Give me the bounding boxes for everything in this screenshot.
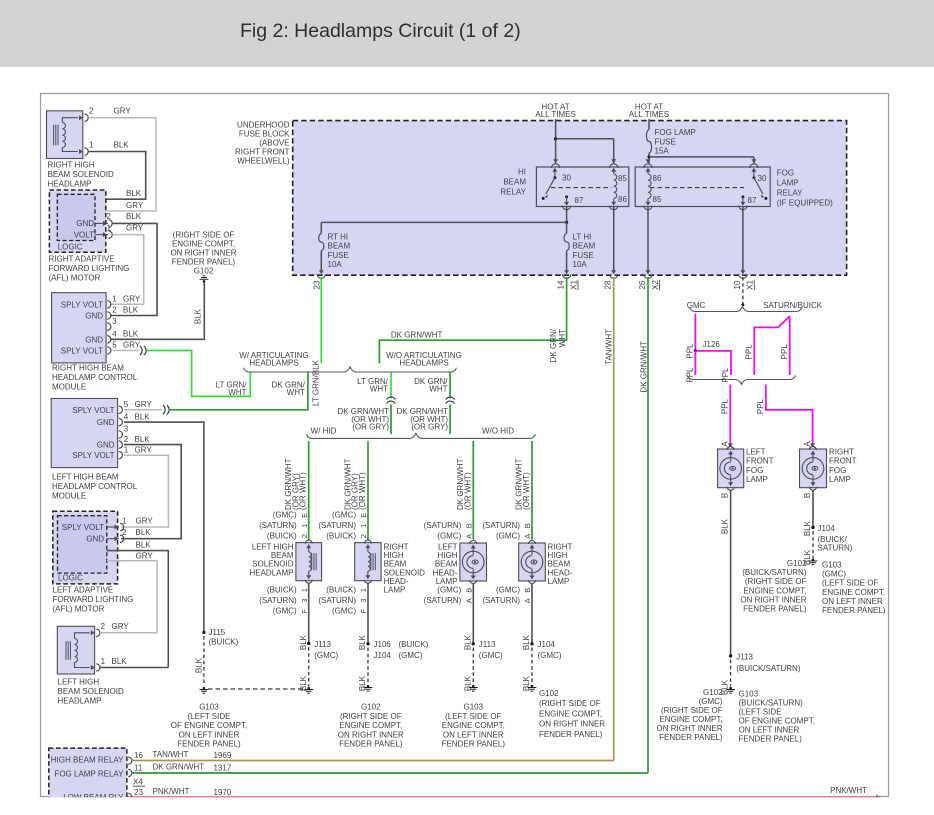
fog relay pin 87 exit [741, 195, 744, 198]
pin 2 GRY of right solenoid headlamp [79, 115, 83, 120]
svg-text:(GMC): (GMC) [496, 532, 520, 541]
component left AFL motor inner [58, 516, 107, 573]
svg-text:WHT: WHT [558, 329, 567, 347]
wire DK GRN/WHT below connector [390, 405, 392, 435]
svg-text:BLK: BLK [126, 212, 142, 221]
svg-text:WHT: WHT [287, 388, 305, 397]
svg-text:HEADLAMP: HEADLAMP [58, 697, 102, 706]
svg-text:23: 23 [313, 280, 322, 289]
svg-text:LAMP: LAMP [777, 179, 799, 188]
svg-text:ON LEFT INNER: ON LEFT INNER [822, 597, 883, 606]
svg-text:ALL TIMES: ALL TIMES [629, 110, 669, 119]
svg-text:DK GRN/WHT: DK GRN/WHT [391, 330, 443, 339]
svg-text:GRY: GRY [135, 400, 153, 409]
svg-text:(BUICK/SATURN): (BUICK/SATURN) [739, 699, 804, 708]
svg-text:HI: HI [518, 168, 526, 177]
svg-text:3: 3 [124, 425, 129, 434]
svg-text:G102: G102 [194, 267, 214, 276]
svg-text:LOGIC: LOGIC [58, 243, 83, 252]
svg-text:(SATURN): (SATURN) [318, 521, 356, 530]
svg-text:RIGHT: RIGHT [829, 448, 854, 457]
wire AFL GND to module pin 2 [110, 223, 157, 315]
svg-text:(RIGHT SIDE OF: (RIGHT SIDE OF [661, 706, 723, 715]
svg-text:2: 2 [107, 212, 112, 221]
svg-text:(SATURN): (SATURN) [424, 596, 462, 605]
svg-text:HEADLAMP: HEADLAMP [48, 180, 92, 189]
svg-text:26: 26 [638, 280, 647, 289]
svg-text:E: E [359, 513, 368, 518]
svg-text:FOG LAMP RELAY: FOG LAMP RELAY [54, 770, 124, 779]
svg-text:BLK: BLK [112, 657, 128, 666]
component left high beam headlamp control module [51, 399, 117, 468]
svg-text:GRY: GRY [112, 622, 130, 631]
wire junction left to RT fuse [321, 221, 566, 223]
svg-text:GND: GND [76, 219, 94, 228]
inline connector hid left [387, 397, 396, 399]
svg-text:FOG: FOG [777, 169, 794, 178]
wire GRY left pin1 to AFL [121, 455, 168, 527]
svg-text:X4: X4 [133, 778, 143, 787]
svg-text:A: A [523, 534, 532, 539]
fog relay pin 85 exit [647, 199, 649, 202]
svg-text:(SATURN): (SATURN) [482, 596, 520, 605]
svg-text:FENDER PANEL): FENDER PANEL) [539, 730, 603, 739]
svg-text:(GMC): (GMC) [273, 607, 297, 616]
svg-text:BEAM: BEAM [573, 242, 596, 251]
svg-text:(GMC): (GMC) [699, 697, 723, 706]
wire BLK module pin4 to G102 [110, 283, 204, 340]
fog relay pin 30 entry [751, 159, 756, 163]
svg-text:GND: GND [85, 312, 103, 321]
svg-text:2: 2 [101, 622, 106, 631]
svg-text:J104: J104 [374, 651, 392, 660]
title banner [0, 0, 934, 67]
wire DK GRN/WHT 26 down [647, 277, 649, 773]
svg-text:RIGHT HIGH: RIGHT HIGH [48, 161, 95, 170]
svg-text:86: 86 [618, 195, 627, 204]
svg-text:(GMC): (GMC) [538, 651, 562, 660]
svg-text:FENDER PANEL): FENDER PANEL) [177, 740, 241, 749]
wire DK GRN/WHT from 14 [379, 277, 566, 363]
svg-text:TAN/WHT: TAN/WHT [153, 750, 189, 759]
wire BLK pin1 to AFL motor [88, 152, 145, 200]
left AFL BLK row [107, 551, 169, 668]
svg-text:ENGINE COMPT,: ENGINE COMPT, [442, 721, 505, 730]
svg-text:BLK: BLK [194, 308, 203, 324]
svg-text:23: 23 [134, 788, 143, 797]
relay pin 86 exit [613, 199, 615, 202]
svg-text:(AFL) MOTOR: (AFL) MOTOR [49, 274, 101, 283]
svg-text:TAN/WHT: TAN/WHT [605, 329, 614, 365]
wire TAN/WHT 28 down [613, 277, 615, 761]
svg-text:BLK: BLK [358, 675, 367, 691]
svg-text:RIGHT ADAPTIVE: RIGHT ADAPTIVE [49, 255, 115, 264]
diagram frame [41, 94, 889, 797]
svg-text:GRY: GRY [136, 551, 154, 560]
svg-text:G102: G102 [361, 703, 381, 712]
fuse LT HI BEAM FUSE 10A [566, 222, 568, 233]
wire dashed left fog ground [730, 660, 732, 687]
svg-text:(BUICK): (BUICK) [326, 586, 356, 595]
svg-text:85: 85 [618, 174, 627, 183]
svg-text:RELAY: RELAY [500, 188, 526, 197]
svg-text:B: B [465, 588, 474, 593]
svg-text:1: 1 [101, 657, 106, 666]
svg-text:(BUICK/SATURN): (BUICK/SATURN) [736, 664, 801, 673]
svg-text:(GMC): (GMC) [822, 570, 846, 579]
svg-text:FENDER PANEL): FENDER PANEL) [339, 740, 403, 749]
fuse FOG LAMP FUSE 15A [646, 130, 651, 154]
wire dashed lamp2 ground [367, 648, 369, 685]
svg-text:BEAM: BEAM [328, 242, 351, 251]
module pin 2 BLK [107, 312, 111, 319]
fuse RT HI BEAM FUSE 10A [319, 234, 324, 251]
svg-text:BLK: BLK [136, 541, 152, 550]
svg-text:BLK: BLK [522, 675, 531, 691]
svg-text:(BUICK/: (BUICK/ [818, 535, 848, 544]
svg-text:1: 1 [107, 224, 112, 233]
svg-text:GND: GND [86, 535, 104, 544]
svg-text:RELAY: RELAY [777, 189, 803, 198]
ground G102 lamp4 symbol [531, 685, 534, 688]
svg-text:LEFT HIGH BEAM: LEFT HIGH BEAM [52, 473, 119, 482]
wire feed left solenoid lamp [308, 441, 310, 540]
svg-text:(OR GRY): (OR GRY) [352, 422, 389, 431]
svg-text:(SATURN): (SATURN) [482, 521, 520, 530]
svg-text:(GMC): (GMC) [273, 511, 297, 520]
svg-text:WHT: WHT [228, 388, 246, 397]
svg-text:W/O HID: W/O HID [482, 427, 514, 436]
svg-text:WHT: WHT [429, 385, 447, 394]
svg-text:VOLT: VOLT [74, 230, 94, 239]
svg-text:BEAM SOLENOID: BEAM SOLENOID [58, 687, 124, 696]
svg-text:LEFT ADAPTIVE: LEFT ADAPTIVE [53, 586, 114, 595]
svg-text:HEADLAMP: HEADLAMP [249, 568, 293, 577]
wire GRY pin2 to AFL motor [88, 118, 155, 211]
module pin 4 BLK [107, 336, 111, 343]
svg-text:ON RIGHT INNER: ON RIGHT INNER [338, 730, 404, 739]
component left high beam solenoid headlamp [57, 626, 94, 674]
svg-text:FUSE: FUSE [573, 251, 594, 260]
svg-text:(OR WHT): (OR WHT) [522, 472, 531, 510]
svg-text:PPL: PPL [756, 398, 765, 414]
svg-text:G103: G103 [464, 703, 484, 712]
wire LT GRN/WHT right module to brace [147, 351, 250, 397]
svg-text:G103: G103 [822, 561, 842, 570]
svg-text:LEFT: LEFT [746, 448, 766, 457]
svg-text:HEADLAMPS: HEADLAMPS [249, 359, 298, 368]
svg-text:W/ HID: W/ HID [311, 427, 337, 436]
svg-text:87: 87 [748, 196, 757, 205]
svg-text:DK GRN/: DK GRN/ [549, 328, 558, 362]
component right high beam headlamp [519, 543, 546, 581]
svg-text:85: 85 [653, 195, 662, 204]
svg-text:F: F [359, 608, 368, 613]
brace articulating options [243, 367, 456, 372]
svg-text:(GMC): (GMC) [437, 532, 461, 541]
relay pin 85 entry [611, 159, 616, 163]
wire BLK below lamp3 [472, 584, 474, 644]
svg-text:3: 3 [300, 599, 309, 603]
svg-text:30: 30 [562, 174, 571, 183]
wire fog relay 85 to block exit 26 [647, 207, 649, 272]
wire LT GRN/WHT right pair [390, 372, 392, 399]
svg-text:UNDERHOOD: UNDERHOOD [237, 120, 290, 129]
svg-text:GND: GND [85, 335, 103, 344]
svg-text:PPL: PPL [745, 344, 754, 360]
wire LT fuse to block exit 14 [566, 251, 568, 272]
wire BLK left lamp to AFL [100, 667, 168, 669]
svg-text:ON LEFT INNER: ON LEFT INNER [443, 730, 504, 739]
svg-text:BLK: BLK [463, 634, 472, 650]
svg-text:(LEFT SIDE OF: (LEFT SIDE OF [445, 712, 501, 721]
wire BLK below left fog [730, 490, 732, 656]
svg-text:(BUICK): (BUICK) [209, 638, 239, 647]
svg-text:BLK: BLK [463, 675, 472, 691]
ground G102 lamp2 symbol [367, 685, 370, 688]
wire BLK below lamp1 [308, 584, 310, 644]
wire feed right headlamp [531, 441, 533, 540]
svg-text:(BUICK): (BUICK) [326, 532, 356, 541]
ground G102 top symbol [203, 280, 206, 283]
svg-text:30: 30 [758, 174, 767, 183]
wire hot feed to fog lamp fuse [648, 119, 650, 130]
svg-text:5: 5 [112, 341, 117, 350]
wire RT fuse to block exit 23 [320, 251, 322, 272]
svg-text:BLK: BLK [126, 189, 142, 198]
svg-text:LAMP: LAMP [548, 577, 570, 586]
svg-text:GMC: GMC [687, 301, 706, 310]
svg-text:LT GRN/BLK: LT GRN/BLK [312, 359, 321, 406]
svg-text:PPL: PPL [686, 367, 695, 383]
relay coil 85-86 [613, 171, 615, 174]
svg-text:BLK: BLK [195, 657, 204, 673]
svg-text:(BUICK): (BUICK) [399, 640, 429, 649]
svg-text:PNK/WHT: PNK/WHT [153, 787, 190, 796]
wire AFL VOLT to module pin 1 [110, 235, 144, 305]
brace GMC / SATURN-BUICK [690, 307, 802, 312]
svg-text:G103: G103 [739, 690, 759, 699]
wire fog relay 87 to block exit 10 [742, 207, 744, 272]
pin 2 GRY of left solenoid headlamp [91, 630, 95, 635]
wire DK GRN/WHT below connector right [449, 405, 451, 435]
svg-text:SPLY VOLT: SPLY VOLT [72, 451, 114, 460]
relay switch arm [546, 178, 555, 195]
wire BLK below right fog [812, 490, 814, 528]
fog relay internal dashed link [650, 187, 744, 189]
svg-text:B: B [523, 523, 532, 528]
svg-text:(BUICK): (BUICK) [267, 532, 297, 541]
svg-text:FOG: FOG [829, 466, 846, 475]
svg-text:FRONT: FRONT [746, 457, 774, 466]
svg-text:(BUICK): (BUICK) [267, 586, 297, 595]
svg-text:J115: J115 [209, 628, 226, 637]
brace fog lamp merge [687, 375, 795, 384]
svg-text:87: 87 [575, 196, 584, 205]
svg-text:J104: J104 [818, 524, 836, 533]
svg-text:BLK: BLK [358, 634, 367, 650]
pin 1 BLK of left solenoid headlamp [91, 665, 95, 670]
svg-text:(SATURN): (SATURN) [318, 596, 356, 605]
svg-text:SPLY VOLT: SPLY VOLT [61, 300, 103, 309]
wire BLK below lamp4 [531, 584, 533, 644]
svg-text:FUSE BLOCK: FUSE BLOCK [239, 129, 290, 138]
svg-text:(GMC): (GMC) [437, 586, 461, 595]
splice J115 [202, 631, 205, 634]
wire feed right solenoid lamp [367, 441, 369, 540]
svg-text:X1: X1 [569, 280, 578, 290]
svg-text:PPL: PPL [721, 367, 730, 383]
relay pin 30 entry [553, 159, 558, 163]
svg-text:3: 3 [359, 599, 368, 603]
svg-text:X1: X1 [746, 280, 755, 290]
svg-text:B: B [803, 493, 812, 498]
svg-text:(OR WHT): (OR WHT) [463, 472, 472, 510]
wire PPL saturn diagonal [754, 316, 789, 375]
svg-text:LOGIC: LOGIC [58, 574, 83, 583]
svg-text:J106: J106 [374, 640, 392, 649]
svg-text:HEADLAMPS: HEADLAMPS [399, 359, 448, 368]
svg-text:14: 14 [557, 280, 566, 289]
svg-text:GND: GND [97, 441, 115, 450]
svg-text:(RIGHT SIDE OF: (RIGHT SIDE OF [539, 699, 601, 708]
svg-text:1970: 1970 [214, 788, 232, 797]
splice J113 left fog [729, 654, 732, 657]
svg-text:ENGINE COMPT,: ENGINE COMPT, [339, 721, 402, 730]
fog relay switch arm [754, 178, 763, 195]
svg-text:ENGINE COMPT,: ENGINE COMPT, [539, 709, 602, 718]
svg-text:FRONT: FRONT [829, 457, 857, 466]
wire branch to fog relay pin 30 [649, 156, 754, 158]
component left high beam headlamp [460, 543, 487, 581]
svg-text:10: 10 [733, 280, 742, 289]
svg-text:ALL TIMES: ALL TIMES [535, 110, 575, 119]
svg-text:BLK: BLK [299, 675, 308, 691]
fog relay coil 86-85 [647, 171, 649, 174]
svg-text:G102: G102 [787, 559, 807, 568]
svg-text:OF ENGINE COMPT,: OF ENGINE COMPT, [171, 721, 247, 730]
relay K1 HI BEAM RELAY box [536, 167, 628, 207]
svg-text:SATURN): SATURN) [818, 544, 853, 553]
svg-text:LAMP: LAMP [746, 475, 768, 484]
module pin 3 [107, 323, 111, 330]
svg-text:GRY: GRY [123, 295, 141, 304]
wire GRY pin5 to connector [113, 350, 140, 352]
svg-text:OF ENGINE COMPT,: OF ENGINE COMPT, [739, 717, 815, 726]
component left AFL motor outer [53, 511, 118, 584]
wire relay 86 to block exit 28 [613, 207, 615, 272]
svg-text:ON RIGHT INNER: ON RIGHT INNER [657, 724, 723, 733]
svg-text:(GMC): (GMC) [332, 511, 356, 520]
splice J113 lamp1 [307, 642, 310, 645]
svg-text:BLK: BLK [123, 306, 139, 315]
svg-text:BLK: BLK [299, 634, 308, 650]
svg-text:(IF EQUIPPED): (IF EQUIPPED) [777, 199, 833, 208]
svg-text:FOG LAMP: FOG LAMP [655, 128, 696, 137]
svg-text:E: E [300, 513, 309, 518]
svg-text:16: 16 [134, 751, 143, 760]
svg-text:2: 2 [300, 534, 309, 538]
wire dashed J115 to G103 [203, 636, 205, 686]
svg-text:ENGINE COMPT,: ENGINE COMPT, [743, 586, 806, 595]
svg-text:FENDER PANEL): FENDER PANEL) [442, 740, 506, 749]
component left high beam solenoid headlamp (center) [296, 543, 322, 581]
svg-text:PPL: PPL [721, 398, 730, 414]
svg-text:LAMP: LAMP [829, 475, 851, 484]
ground left fog symbol [729, 687, 732, 690]
left module pin 2 BLK [119, 441, 123, 448]
svg-text:DK GRN/WHT: DK GRN/WHT [639, 341, 648, 393]
wire dashed right fog ground [812, 531, 814, 558]
svg-text:FENDER PANEL): FENDER PANEL) [172, 258, 236, 267]
svg-text:BEAM SOLENOID: BEAM SOLENOID [48, 170, 114, 179]
svg-text:MODULE: MODULE [52, 492, 86, 501]
svg-text:SPLY VOLT: SPLY VOLT [72, 406, 114, 415]
relay internal dashed link [551, 187, 612, 189]
svg-text:4: 4 [124, 412, 129, 421]
svg-text:GRY: GRY [126, 224, 144, 233]
svg-text:Fig 2: Headlamps Circuit (1 of: Fig 2: Headlamps Circuit (1 of 2) [240, 20, 521, 42]
svg-text:1: 1 [300, 588, 309, 592]
svg-text:1: 1 [124, 445, 129, 454]
svg-text:B: B [465, 523, 474, 528]
svg-text:MODULE: MODULE [52, 383, 86, 392]
svg-text:BLK: BLK [135, 435, 151, 444]
svg-text:WHT: WHT [370, 385, 388, 394]
wire PPL saturn-buick right [789, 316, 791, 375]
svg-text:(RIGHT SIDE OF: (RIGHT SIDE OF [340, 712, 402, 721]
svg-text:1317: 1317 [214, 764, 232, 773]
svg-text:RIGHT HIGH BEAM: RIGHT HIGH BEAM [52, 364, 124, 373]
relay pin 87 exit [565, 195, 568, 198]
svg-text:GRY: GRY [126, 201, 144, 210]
wire DK GRN/WHT right pair [449, 372, 451, 399]
wire fog fuse to relay [648, 153, 650, 163]
svg-text:J113: J113 [479, 640, 496, 649]
svg-text:GRY: GRY [136, 517, 154, 526]
svg-text:(RIGHT SIDE OF: (RIGHT SIDE OF [745, 577, 807, 586]
relay K2 FOG LAMP RELAY box [635, 167, 770, 207]
svg-text:(GMC): (GMC) [399, 651, 423, 660]
svg-text:FENDER PANEL): FENDER PANEL) [659, 733, 723, 742]
svg-text:G102: G102 [539, 689, 559, 698]
svg-text:(SATURN): (SATURN) [259, 521, 297, 530]
svg-text:(RIGHT SIDE OF: (RIGHT SIDE OF [173, 231, 235, 240]
splice J104 right fog [811, 526, 814, 529]
svg-text:B: B [721, 493, 730, 498]
wire dashed lamp1 ground [308, 647, 310, 687]
svg-text:G102: G102 [703, 688, 723, 697]
svg-text:A: A [465, 598, 474, 603]
svg-text:ON RIGHT INNER: ON RIGHT INNER [539, 720, 605, 729]
svg-text:11: 11 [134, 764, 143, 773]
svg-text:1969: 1969 [214, 751, 232, 760]
svg-text:(LEFT SIDE OF: (LEFT SIDE OF [822, 579, 878, 588]
svg-text:2: 2 [89, 107, 94, 116]
svg-text:PPL: PPL [780, 344, 789, 360]
svg-text:WHEELWELL): WHEELWELL) [237, 156, 290, 165]
svg-text:(LEFT SIDE: (LEFT SIDE [188, 712, 231, 721]
svg-text:A: A [465, 534, 474, 539]
svg-text:(OR GRY): (OR GRY) [411, 422, 448, 431]
svg-text:FENDER PANEL): FENDER PANEL) [739, 735, 803, 744]
svg-text:(GMC): (GMC) [314, 651, 338, 660]
splice J126 [694, 349, 697, 352]
svg-text:ENGINE COMPT,: ENGINE COMPT, [822, 588, 885, 597]
svg-text:LAMP: LAMP [384, 586, 406, 595]
dashed ground bus G103 [208, 688, 304, 690]
svg-text:(SATURN): (SATURN) [424, 521, 462, 530]
